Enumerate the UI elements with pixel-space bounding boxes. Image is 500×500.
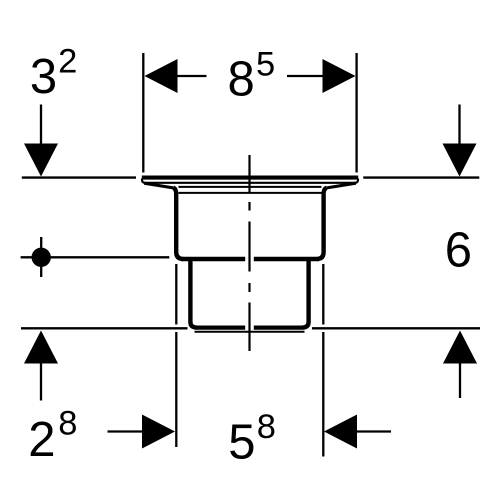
flange top plane line right [363, 176, 479, 178]
dimension arrow top left (points left) [145, 59, 207, 93]
up arrow right (to pipe bottom plane) [443, 331, 477, 399]
body inner line lower [179, 192, 322, 194]
down arrow left (to flange top plane) [24, 105, 58, 177]
outlet pipe wall right [303, 261, 309, 328]
svg-text:3: 3 [30, 50, 57, 104]
outlet pipe wall left [190, 261, 196, 328]
shoulder step line right half [254, 257, 319, 262]
svg-text:8: 8 [257, 408, 276, 446]
svg-text:2: 2 [28, 413, 55, 467]
svg-text:8: 8 [58, 405, 77, 443]
outlet pipe bottom edge right half [254, 325, 304, 329]
outlet pipe bottom edge left half [196, 325, 246, 329]
centerline dot 1 [248, 202, 250, 211]
datum leader line to body [21, 256, 170, 258]
flange top plane line left [22, 176, 136, 178]
dimension label 3 (superscript 2) [30, 42, 77, 104]
datum point vertical tick [40, 237, 42, 277]
flange underside slope right [327, 183, 356, 188]
flange underside slope left [144, 183, 173, 188]
up arrow left (to pipe bottom plane) [24, 331, 58, 401]
flange right tip [355, 179, 359, 183]
datum point circle [32, 248, 51, 267]
centerline dash 2 [248, 222, 250, 272]
svg-text:6: 6 [445, 224, 472, 278]
upper body wall left [173, 188, 183, 259]
pipe bottom plane line left [21, 327, 188, 329]
upper body wall right [317, 188, 327, 259]
dimension arrow top right (points right) [287, 59, 356, 93]
extension line bottom left upper segment [175, 264, 177, 325]
flange left tip [142, 179, 146, 183]
dimension label 2 (superscript 8) [28, 405, 77, 467]
dimension arrow bottom left (points right) [108, 415, 176, 449]
centerline dash 3 [248, 303, 250, 352]
extension line top right [355, 53, 357, 173]
dimension label 8 (superscript 5) [228, 45, 276, 106]
dimension label 5 (superscript 8) [228, 408, 276, 470]
pipe bottom plane line right [312, 327, 480, 329]
extension line bottom left lower segment [175, 332, 177, 447]
body inner line upper [179, 186, 322, 188]
svg-text:8: 8 [228, 52, 255, 106]
svg-text:2: 2 [58, 42, 77, 80]
centerline dot 2 [248, 283, 250, 292]
outlet pipe chamfer line [195, 331, 305, 333]
shoulder step line left half [181, 257, 245, 262]
centerline dash 1 [248, 155, 250, 193]
dimension arrow bottom right (points left) [324, 415, 391, 449]
flange top edge (thick) [142, 176, 358, 180]
down arrow right (to flange top plane) [443, 105, 477, 177]
flange lower edge (thin) [144, 182, 356, 184]
svg-text:5: 5 [256, 45, 275, 83]
extension line bottom right upper segment [322, 264, 324, 325]
svg-text:5: 5 [228, 416, 255, 470]
extension line bottom right lower segment [322, 332, 324, 457]
extension line top left [142, 53, 144, 173]
